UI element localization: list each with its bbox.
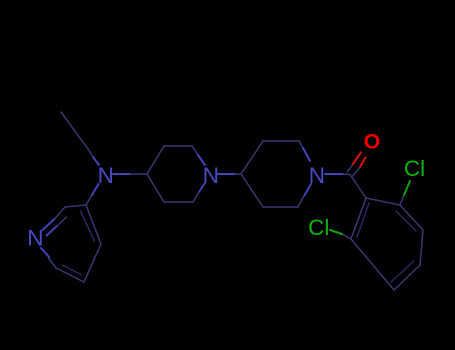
piperidine ring B (241, 141, 311, 207)
bond C2a-N1a (192, 146, 205, 165)
bond N1b-Ccarbonyl (325, 173, 350, 176)
bond C3a-C2a (164, 145, 192, 147)
bond C5=C6 double (56, 265, 84, 282)
bond C5-C6 (351, 239, 394, 290)
benzene ring (351, 198, 423, 290)
bond C6-Cl left (330, 230, 351, 239)
svg-text:N: N (27, 226, 43, 251)
bond C6b-C5b (263, 206, 298, 208)
bond C5a-C4a (147, 174, 164, 202)
bond C4-C5 (double) (391, 261, 420, 290)
svg-text:Cl: Cl (308, 215, 329, 240)
bond C4a-C3a (147, 146, 164, 174)
bond N1=C2 double (43, 207, 67, 236)
bond N1b-C6b (298, 184, 311, 207)
bond C3-Namine (86, 184, 99, 205)
bond C2-C3 (double) (396, 205, 423, 231)
bond C6-C1 (double) (351, 198, 369, 239)
bond C3-C4 (420, 230, 423, 265)
svg-text:N: N (203, 163, 219, 188)
bond Ccarbonyl-C1benzene (350, 175, 366, 199)
bond Namine-C4a (113, 173, 147, 175)
bond C3=C4 double (81, 205, 102, 244)
svg-text:Cl: Cl (404, 156, 425, 181)
bond C2-C3 (65, 205, 86, 207)
bond C1-C2 (366, 198, 400, 205)
bond N1a-C6a (193, 183, 205, 202)
bond C2-Cl top (400, 181, 410, 205)
carbonyl C=O double bond (347, 152, 365, 176)
svg-text:N: N (309, 163, 325, 188)
bond C5b-C4b (241, 174, 263, 207)
bond C6-N1 (41, 248, 56, 268)
bond Namine-ethyl CH2 (88, 149, 99, 165)
piperidine ring A (147, 146, 205, 202)
bond N1a-C4b (218, 173, 242, 175)
bond C3b-C2b (263, 140, 299, 142)
bond C4-C5 (84, 244, 101, 282)
bond C6a-C5a (164, 201, 193, 203)
bond C2b-N1b (299, 141, 310, 161)
bond CH2-CH3 (61, 112, 88, 149)
pyridine ring (41, 205, 101, 282)
svg-text:N: N (98, 163, 114, 188)
svg-text:O: O (364, 130, 381, 154)
bond C4b-C3b (241, 141, 263, 174)
